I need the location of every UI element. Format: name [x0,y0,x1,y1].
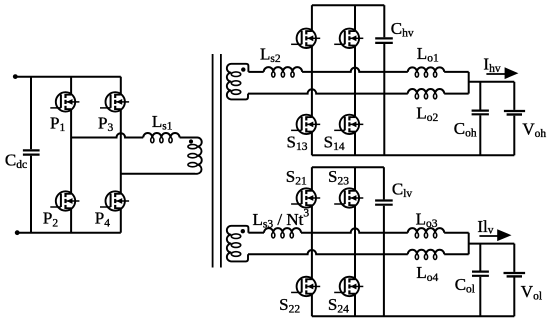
transformer secondary bottom loop curls [231,234,240,256]
wire HV bottom rail [312,154,514,156]
transistor S14 [334,115,363,134]
svg-text:S24: S24 [328,295,349,316]
transistor S22 [291,277,320,296]
transformer secondary winding bottom [227,226,249,262]
transformer primary winding [195,138,202,174]
wire HV node A middle with hop over right leg [302,68,408,72]
transformer primary loop curls [188,145,197,167]
capacitor Chv branch bottom [383,44,385,155]
wire leg2 segment 1 [120,77,122,95]
wire HV right leg segment 3 [354,132,356,156]
wire LV left leg segment 3 [311,294,313,317]
svg-text:Col: Col [455,275,475,296]
inductor Ls2 loop curls [272,72,294,77]
battery Voh branch bottom [513,116,515,156]
wire LV output node vertical [468,233,470,255]
wire Lo1 to HV output node [444,71,469,73]
inductor Lo3 loop curls [415,233,436,238]
wire LV right leg segment 3 [354,294,356,317]
wire HV node A left [248,71,263,73]
transformer secondary top polarity dot [241,67,245,71]
transistor P2 [50,191,79,210]
transistor HV top-left [291,29,320,48]
svg-text:S13: S13 [287,133,308,154]
wire HV left leg segment 1 [311,5,313,31]
wire HV left leg segment 2 [311,46,313,118]
capacitor Col branch top [479,244,481,271]
wire Lo4 to LV output node [444,253,469,255]
svg-text:Lo2: Lo2 [416,104,438,125]
wire leg2 segment 3 [120,208,122,233]
inductor Ls1 loop curls [151,138,172,143]
wire Ls1 to primary winding [180,137,198,139]
battery Vol [504,273,526,276]
inductor Lo2 [408,89,444,94]
transistor S24 [334,277,363,296]
wire HV node B with hop over left leg [248,89,408,93]
svg-text:P4: P4 [95,209,110,230]
inductor Ls1 [143,133,179,138]
capacitor Coh [472,111,489,115]
wire LV right leg segment 2 [354,205,356,279]
svg-text:P2: P2 [43,209,58,230]
wire leg1 segment 1 [70,77,72,95]
svg-text:Chv: Chv [391,19,414,40]
wire Lo2 to HV output node [444,93,469,95]
inductor Lo4 loop curls [415,254,436,259]
capacitor Clv branch bottom [383,206,385,316]
input terminal bottom dot [15,230,20,235]
battery Voh branch top [513,82,515,110]
wire leg1 segment 2 [70,109,72,194]
wire Lo3 to LV output node [444,232,469,234]
capacitor Col branch bottom [479,277,481,316]
capacitor Chv branch top [383,5,385,37]
transistor P1 [50,92,79,111]
inductor Ls3 [264,228,301,233]
transformer secondary top loop curls [231,72,240,94]
wire leg1 segment 3 [70,208,72,233]
wire HV top rail [312,4,384,6]
capacitor Clv branch top [383,167,385,199]
capacitor Col [472,272,489,276]
transistor P4 [100,191,129,210]
transistor P3 [100,92,129,111]
wire HV right leg segment 2 [354,46,356,118]
input terminal top dot [13,74,18,79]
wire primary bottom to leg2 node B [121,173,195,175]
wire left rail upper segment [30,77,32,150]
wire bridge node A with hop over leg2 [71,133,143,137]
battery Vol branch top [513,244,515,272]
wire HV output node vertical [468,72,470,94]
svg-text:Lo3: Lo3 [416,210,438,231]
transformer secondary bottom polarity dot [241,229,245,233]
svg-text:Ls3 / Nt3: Ls3 / Nt3 [253,207,310,230]
wire HV right leg segment 1 [354,5,356,31]
battery Voh [504,111,525,115]
wire HV left leg segment 3 [311,132,313,156]
svg-text:P1: P1 [50,113,65,134]
svg-text:Ls2: Ls2 [260,44,281,65]
wire LV node A left [248,232,264,234]
arrow Ihv [486,67,518,79]
capacitor Chv [375,38,393,43]
transformer secondary winding top [227,64,249,100]
wire HV output [469,81,515,83]
svg-text:S21: S21 [286,167,307,188]
battery Vol branch bottom [513,278,515,317]
capacitor Clv [375,201,393,205]
wire LV bottom rail [312,315,514,317]
svg-text:Clv: Clv [392,179,413,200]
arrow Ilv [479,229,511,241]
svg-text:S14: S14 [324,133,345,154]
svg-text:Ilv: Ilv [477,217,493,237]
svg-text:S22: S22 [279,295,300,316]
inductor Lo3 [408,228,444,233]
wire LV left leg segment 2 [311,205,313,279]
svg-text:Lo1: Lo1 [417,44,439,65]
transformer primary polarity dot [189,139,193,143]
wire LV top rail [312,166,384,168]
transformer core [213,54,221,268]
wire LV right leg segment 1 [354,167,356,191]
svg-text:Vol: Vol [521,282,542,303]
transistor S23 [334,188,363,207]
inductor Ls2 [264,67,302,72]
inductor Ls3 loop curls [272,233,294,238]
transistor HV top-right [334,29,363,48]
capacitor Coh branch bottom [479,115,481,155]
transistor S13 [291,115,320,134]
svg-text:Ls1: Ls1 [152,112,173,133]
wire LV node A middle with hop over right leg [301,228,408,232]
wire LV node B with hop over left leg [248,250,408,254]
svg-text:Lo4: Lo4 [416,263,438,284]
wire top input rail [15,76,121,78]
inductor Lo1 [408,67,444,72]
svg-text:S23: S23 [328,167,349,188]
inductor Lo4 [408,250,444,255]
inductor Lo1 loop curls [415,72,436,77]
wire LV left leg segment 1 [311,167,313,191]
svg-text:Coh: Coh [454,119,477,140]
capacitor Cdc [23,150,40,154]
transistor S21 [291,188,320,207]
inductor Lo2 loop curls [415,94,436,99]
svg-text:P3: P3 [98,113,113,134]
wire LV output [469,243,515,245]
capacitor Coh branch top [479,82,481,110]
wire bottom input rail [17,232,121,234]
svg-text:Ihv: Ihv [483,54,500,75]
wire leg2 segment 2 [120,109,122,194]
wire left rail lower segment [30,156,32,233]
svg-text:Voh: Voh [522,119,546,140]
